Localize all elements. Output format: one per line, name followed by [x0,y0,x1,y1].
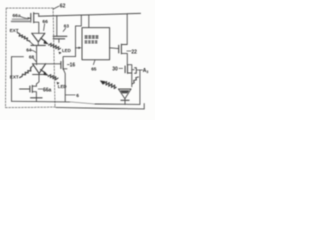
dashed block 62 border bottom [6,106,57,109]
photodiode cathode bar [121,99,129,101]
transistor 16 gate bar [60,62,62,69]
photodiode triangle [118,89,131,99]
transistor 16 drain stub [63,57,76,62]
LED D1 apex-bar link [37,42,39,46]
transistor 66a (top-left) source stub [34,22,39,33]
svg-text:66a: 66a [13,13,21,19]
transistor 30 gate bar [124,66,126,73]
svg-text:66: 66 [42,19,48,25]
svg-text:16: 16 [70,63,76,69]
photodiode light squiggle arrow [104,82,117,89]
wire to terminal 6 [65,94,75,96]
LED D2 cathode bar [33,74,46,76]
wire from rail to block top [88,15,90,28]
label 62 leader [54,6,59,9]
transistor 30 channel bar [127,65,129,73]
transistor 22 channel bar [120,44,122,54]
dashed block 62 border top [6,7,53,9]
capacitor 63 stub from rail [56,16,58,36]
R1 to cathode link [29,41,34,45]
label 63 leader [63,28,65,31]
dashed block 62 border right [53,8,55,107]
svg-text:3: 3 [146,70,148,74]
resistor R1 zigzag [17,33,29,41]
bottom outer line solid part [56,107,144,109]
LED D2 triangle [33,64,46,74]
photodiode hatch [120,90,129,93]
label 64 leader [31,50,36,52]
transistor 30 source stub [128,72,132,74]
svg-text:66a: 66a [43,88,52,94]
transistor 66a (bottom) channel bar [31,85,33,92]
transistor 66a (bottom) source stub [32,92,36,98]
transistor 22 drain stub [121,14,127,45]
block (generic test block) box [82,28,110,60]
transistor 16 source stub [63,68,67,70]
inner solid box top edge [12,56,24,58]
photodiode wire to rail [124,100,126,104]
capacitor 63 top plate [53,35,67,37]
66a bar to rail [35,98,37,102]
label 65 leader [93,60,95,65]
label 66a leader (bottom) [38,88,42,90]
resistor R2 zigzag [20,67,32,77]
LED D2 emission arrow (bold) [41,70,46,73]
label 66 leader [44,24,45,31]
photodiode anode bar [118,88,131,90]
transistor 66a (top-left) drain stub [34,14,39,17]
R2 to node link [31,65,34,67]
capacitor 63 bottom plate [53,38,64,40]
transistor 16 down wire [63,69,65,101]
transistor 66a (top-left) gate bar [30,13,32,22]
label 68 leader [33,58,36,62]
LED D1 wavy light squiggle [49,43,61,49]
inner solid box left edge [11,57,13,102]
transistor 30 drain jog [127,65,132,87]
top power rail [39,13,141,16]
LED D2 apex-bar link [38,73,40,74]
LED D1 triangle [32,33,45,42]
LED D1 cathode bar [31,44,46,46]
photodiode apex link [124,99,126,101]
66a source bar [31,97,42,99]
transistor 16 channel bar [62,61,64,69]
svg-text:LED: LED [62,48,71,53]
svg-text:63: 63 [64,24,70,29]
svg-text:62: 62 [60,3,66,9]
wire bracket to A3 [137,69,143,71]
LED D2 anode base + gate wire to 16 [33,63,61,65]
wire from rail down at x=75.6 [76,15,82,57]
terminal A3 bracket [135,68,137,74]
LED D1 emission arrow (bold) [41,38,46,41]
transistor 66a (bottom) drain stub [32,85,36,87]
transistor 66a (bottom) gate wire [20,88,30,90]
transistor 66a (bottom) gate bar [29,86,31,92]
wire block to transistor 22 gate [110,47,119,50]
svg-text:30: 30 [112,67,118,73]
LED D2 wavy light squiggle [48,75,58,80]
svg-text:65: 65 [91,67,97,72]
dashed block 62 border left [5,8,8,108]
block text line 2 [85,40,88,41]
bottom rail [12,100,71,103]
right box edge vertical [139,70,141,104]
LED D1 anode base [32,32,45,34]
transistor 22 source stub [121,53,127,64]
label 66a leader arrow [21,17,31,19]
arrow into block [76,47,80,49]
svg-text:22: 22 [131,49,137,55]
block text line 1 [85,35,99,43]
node 64 wire (between LEDs) [36,45,38,64]
terminal A3 tap [132,69,134,71]
LED D2 down wire to 66a [36,75,39,87]
label 30 leader [119,67,123,69]
label 16 leader [67,64,69,66]
transistor 66a (top-left) gate stub wire [12,20,31,22]
capacitor 63 lower stub [58,39,60,43]
label 22 leader [127,50,131,52]
bottom outer right tick [143,104,145,109]
small light squiggle right [132,77,138,84]
transistor 66a (top-left) channel bar [33,13,35,23]
svg-text:6: 6 [76,93,79,99]
transistor 22 gate bar [118,45,120,53]
